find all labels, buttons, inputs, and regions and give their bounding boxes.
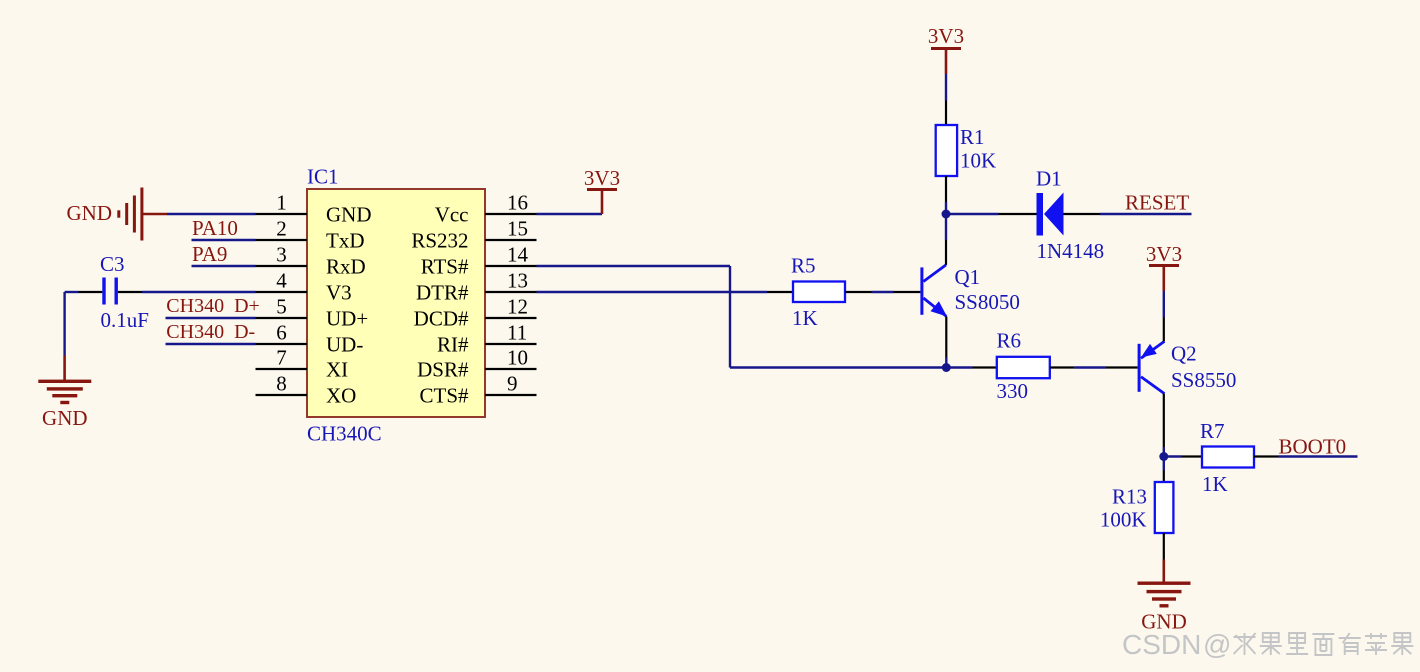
svg-text:RTS#: RTS# xyxy=(421,255,469,279)
svg-text:CH340 D-: CH340 D- xyxy=(166,321,255,343)
svg-text:R5: R5 xyxy=(791,254,816,278)
svg-text:7: 7 xyxy=(276,346,287,370)
svg-text:UD+: UD+ xyxy=(326,307,368,331)
svg-text:GND: GND xyxy=(42,406,88,430)
svg-text:GND: GND xyxy=(326,203,372,227)
svg-text:UD-: UD- xyxy=(326,333,363,357)
svg-text:CH340C: CH340C xyxy=(307,422,382,446)
svg-text:@: @ xyxy=(1203,629,1231,660)
svg-text:13: 13 xyxy=(507,269,528,293)
svg-text:Q2: Q2 xyxy=(1171,342,1197,366)
svg-text:330: 330 xyxy=(997,379,1029,403)
svg-text:100K: 100K xyxy=(1100,508,1147,532)
svg-text:3: 3 xyxy=(276,243,287,267)
svg-text:1N4148: 1N4148 xyxy=(1037,239,1105,263)
svg-text:SS8550: SS8550 xyxy=(1171,368,1236,392)
svg-text:Q1: Q1 xyxy=(955,265,981,289)
svg-text:DTR#: DTR# xyxy=(416,281,469,305)
svg-text:TxD: TxD xyxy=(326,229,365,253)
svg-text:1K: 1K xyxy=(792,306,818,330)
svg-text:Vcc: Vcc xyxy=(435,203,469,227)
svg-text:1: 1 xyxy=(276,191,287,215)
svg-text:PA9: PA9 xyxy=(192,242,227,266)
svg-text:16: 16 xyxy=(507,191,528,215)
svg-text:4: 4 xyxy=(276,269,287,293)
svg-text:2: 2 xyxy=(276,217,287,241)
svg-text:XI: XI xyxy=(326,358,348,382)
svg-text:V3: V3 xyxy=(326,281,352,305)
svg-text:0.1uF: 0.1uF xyxy=(101,308,149,332)
svg-text:CSDN: CSDN xyxy=(1122,629,1201,660)
svg-text:R7: R7 xyxy=(1200,419,1225,443)
svg-text:CH340 D+: CH340 D+ xyxy=(166,295,260,317)
svg-text:IC1: IC1 xyxy=(307,165,339,189)
svg-text:XO: XO xyxy=(326,384,356,408)
svg-text:3V3: 3V3 xyxy=(928,24,964,48)
svg-text:BOOT0: BOOT0 xyxy=(1279,435,1347,459)
svg-text:8: 8 xyxy=(276,372,287,396)
svg-text:5: 5 xyxy=(276,295,287,319)
svg-text:D1: D1 xyxy=(1036,167,1062,191)
svg-text:RxD: RxD xyxy=(326,255,366,279)
svg-text:9: 9 xyxy=(507,372,518,396)
svg-text:DSR#: DSR# xyxy=(417,358,469,382)
svg-text:CTS#: CTS# xyxy=(419,384,469,408)
svg-text:GND: GND xyxy=(67,201,113,225)
svg-text:6: 6 xyxy=(276,321,287,345)
svg-text:R1: R1 xyxy=(960,125,985,149)
svg-text:DCD#: DCD# xyxy=(414,307,469,331)
svg-text:3V3: 3V3 xyxy=(1146,242,1182,266)
svg-text:10K: 10K xyxy=(960,149,996,173)
svg-text:14: 14 xyxy=(507,243,529,267)
svg-text:10: 10 xyxy=(507,346,528,370)
svg-text:3V3: 3V3 xyxy=(584,166,620,190)
svg-text:11: 11 xyxy=(507,321,527,345)
svg-text:C3: C3 xyxy=(100,252,125,276)
svg-text:PA10: PA10 xyxy=(192,216,238,240)
svg-text:12: 12 xyxy=(507,295,528,319)
svg-text:SS8050: SS8050 xyxy=(955,290,1020,314)
svg-text:RI#: RI# xyxy=(437,333,469,357)
svg-text:1K: 1K xyxy=(1202,472,1228,496)
svg-text:RESET: RESET xyxy=(1125,191,1189,215)
svg-text:15: 15 xyxy=(507,217,528,241)
svg-text:R6: R6 xyxy=(997,329,1022,353)
svg-text:RS232: RS232 xyxy=(411,229,468,253)
svg-text:R13: R13 xyxy=(1112,485,1147,509)
